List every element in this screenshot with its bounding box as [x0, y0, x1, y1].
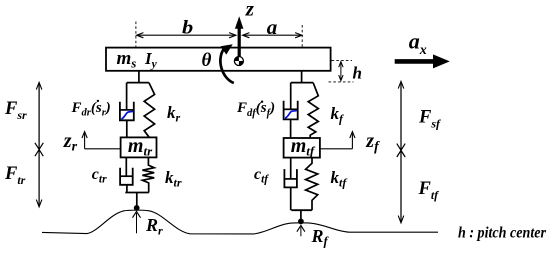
pivot CG symbol — [234, 57, 243, 66]
dashed extension line rear axle — [135, 22, 137, 48]
damper F_df piston plate — [284, 108, 297, 110]
damper F_df rod — [290, 83, 292, 110]
dimension line b — [137, 34, 236, 36]
spring k_tf — [306, 158, 318, 211]
damper F_dr rod — [126, 83, 128, 110]
z_f arrow — [351, 134, 353, 149]
dashed extension line front axle — [301, 25, 303, 47]
theta curved arrow — [220, 48, 233, 84]
rear splitter bar — [127, 82, 149, 84]
rear contact node — [134, 205, 140, 211]
damper F_df nonlinear blue curve — [285, 110, 297, 118]
acceleration arrow a_x — [395, 59, 434, 64]
rear wheel rod — [136, 193, 138, 206]
dashed line pivot level — [332, 59, 353, 61]
damper F_dr cup — [120, 102, 134, 121]
damper c_tr rod — [125, 157, 127, 176]
z_r arrow — [84, 134, 86, 149]
F_sf / F_tf double arrow — [400, 84, 402, 222]
wire damper to m_tf — [290, 119, 292, 138]
svg-text:h : pitch center: h : pitch center — [458, 225, 547, 242]
meeting arrowheads right — [397, 144, 405, 151]
z_f reference line — [320, 148, 353, 150]
dashed line pitch-center level — [329, 81, 354, 83]
damper c_tr piston plate — [121, 175, 133, 177]
svg-text:h: h — [353, 63, 362, 82]
damper F_dr nonlinear blue curve — [121, 111, 133, 119]
road input arrow R_f — [300, 227, 302, 236]
svg-text:b: b — [182, 18, 193, 39]
front contact node — [298, 219, 304, 225]
spring k_r — [144, 83, 154, 138]
spring k_f — [308, 83, 318, 138]
svg-text:a: a — [267, 15, 278, 39]
rear bottom bar — [125, 192, 149, 194]
road profile — [42, 210, 438, 234]
svg-text:z: z — [245, 0, 255, 20]
meeting arrowheads left — [35, 143, 43, 150]
z axis arrow — [238, 28, 241, 58]
wire bar to front splitter — [301, 71, 303, 83]
damper c_tf piston plate — [285, 178, 297, 180]
sprung mass bar m_s — [106, 48, 331, 71]
damper F_df cup — [284, 101, 298, 120]
z_r reference line — [85, 148, 121, 150]
wire damper to m_tr — [126, 120, 128, 137]
wire c_tr to bottom bar — [126, 185, 128, 193]
front bottom bar — [291, 209, 312, 211]
damper F_dr piston plate — [120, 109, 133, 111]
dimension arrow h — [340, 63, 342, 80]
unsprung mass m_tr — [121, 137, 157, 157]
front wheel rod — [300, 210, 302, 219]
svg-text:Fdf(sf): Fdf(sf) — [236, 100, 275, 119]
svg-text:θ: θ — [202, 50, 212, 71]
unsprung mass m_tf — [284, 138, 320, 158]
front splitter bar — [291, 82, 313, 84]
wire c_tf to bottom bar — [290, 187, 292, 210]
damper c_tf cup — [284, 169, 297, 187]
dimension line a — [243, 34, 302, 36]
road input arrow R_r — [136, 213, 138, 233]
spring k_tr — [142, 157, 154, 192]
F_sr / F_tr double arrow — [38, 84, 40, 205]
wire bar to rear splitter — [138, 71, 140, 83]
damper c_tf rod — [290, 158, 292, 179]
damper c_tr cup — [120, 168, 133, 185]
